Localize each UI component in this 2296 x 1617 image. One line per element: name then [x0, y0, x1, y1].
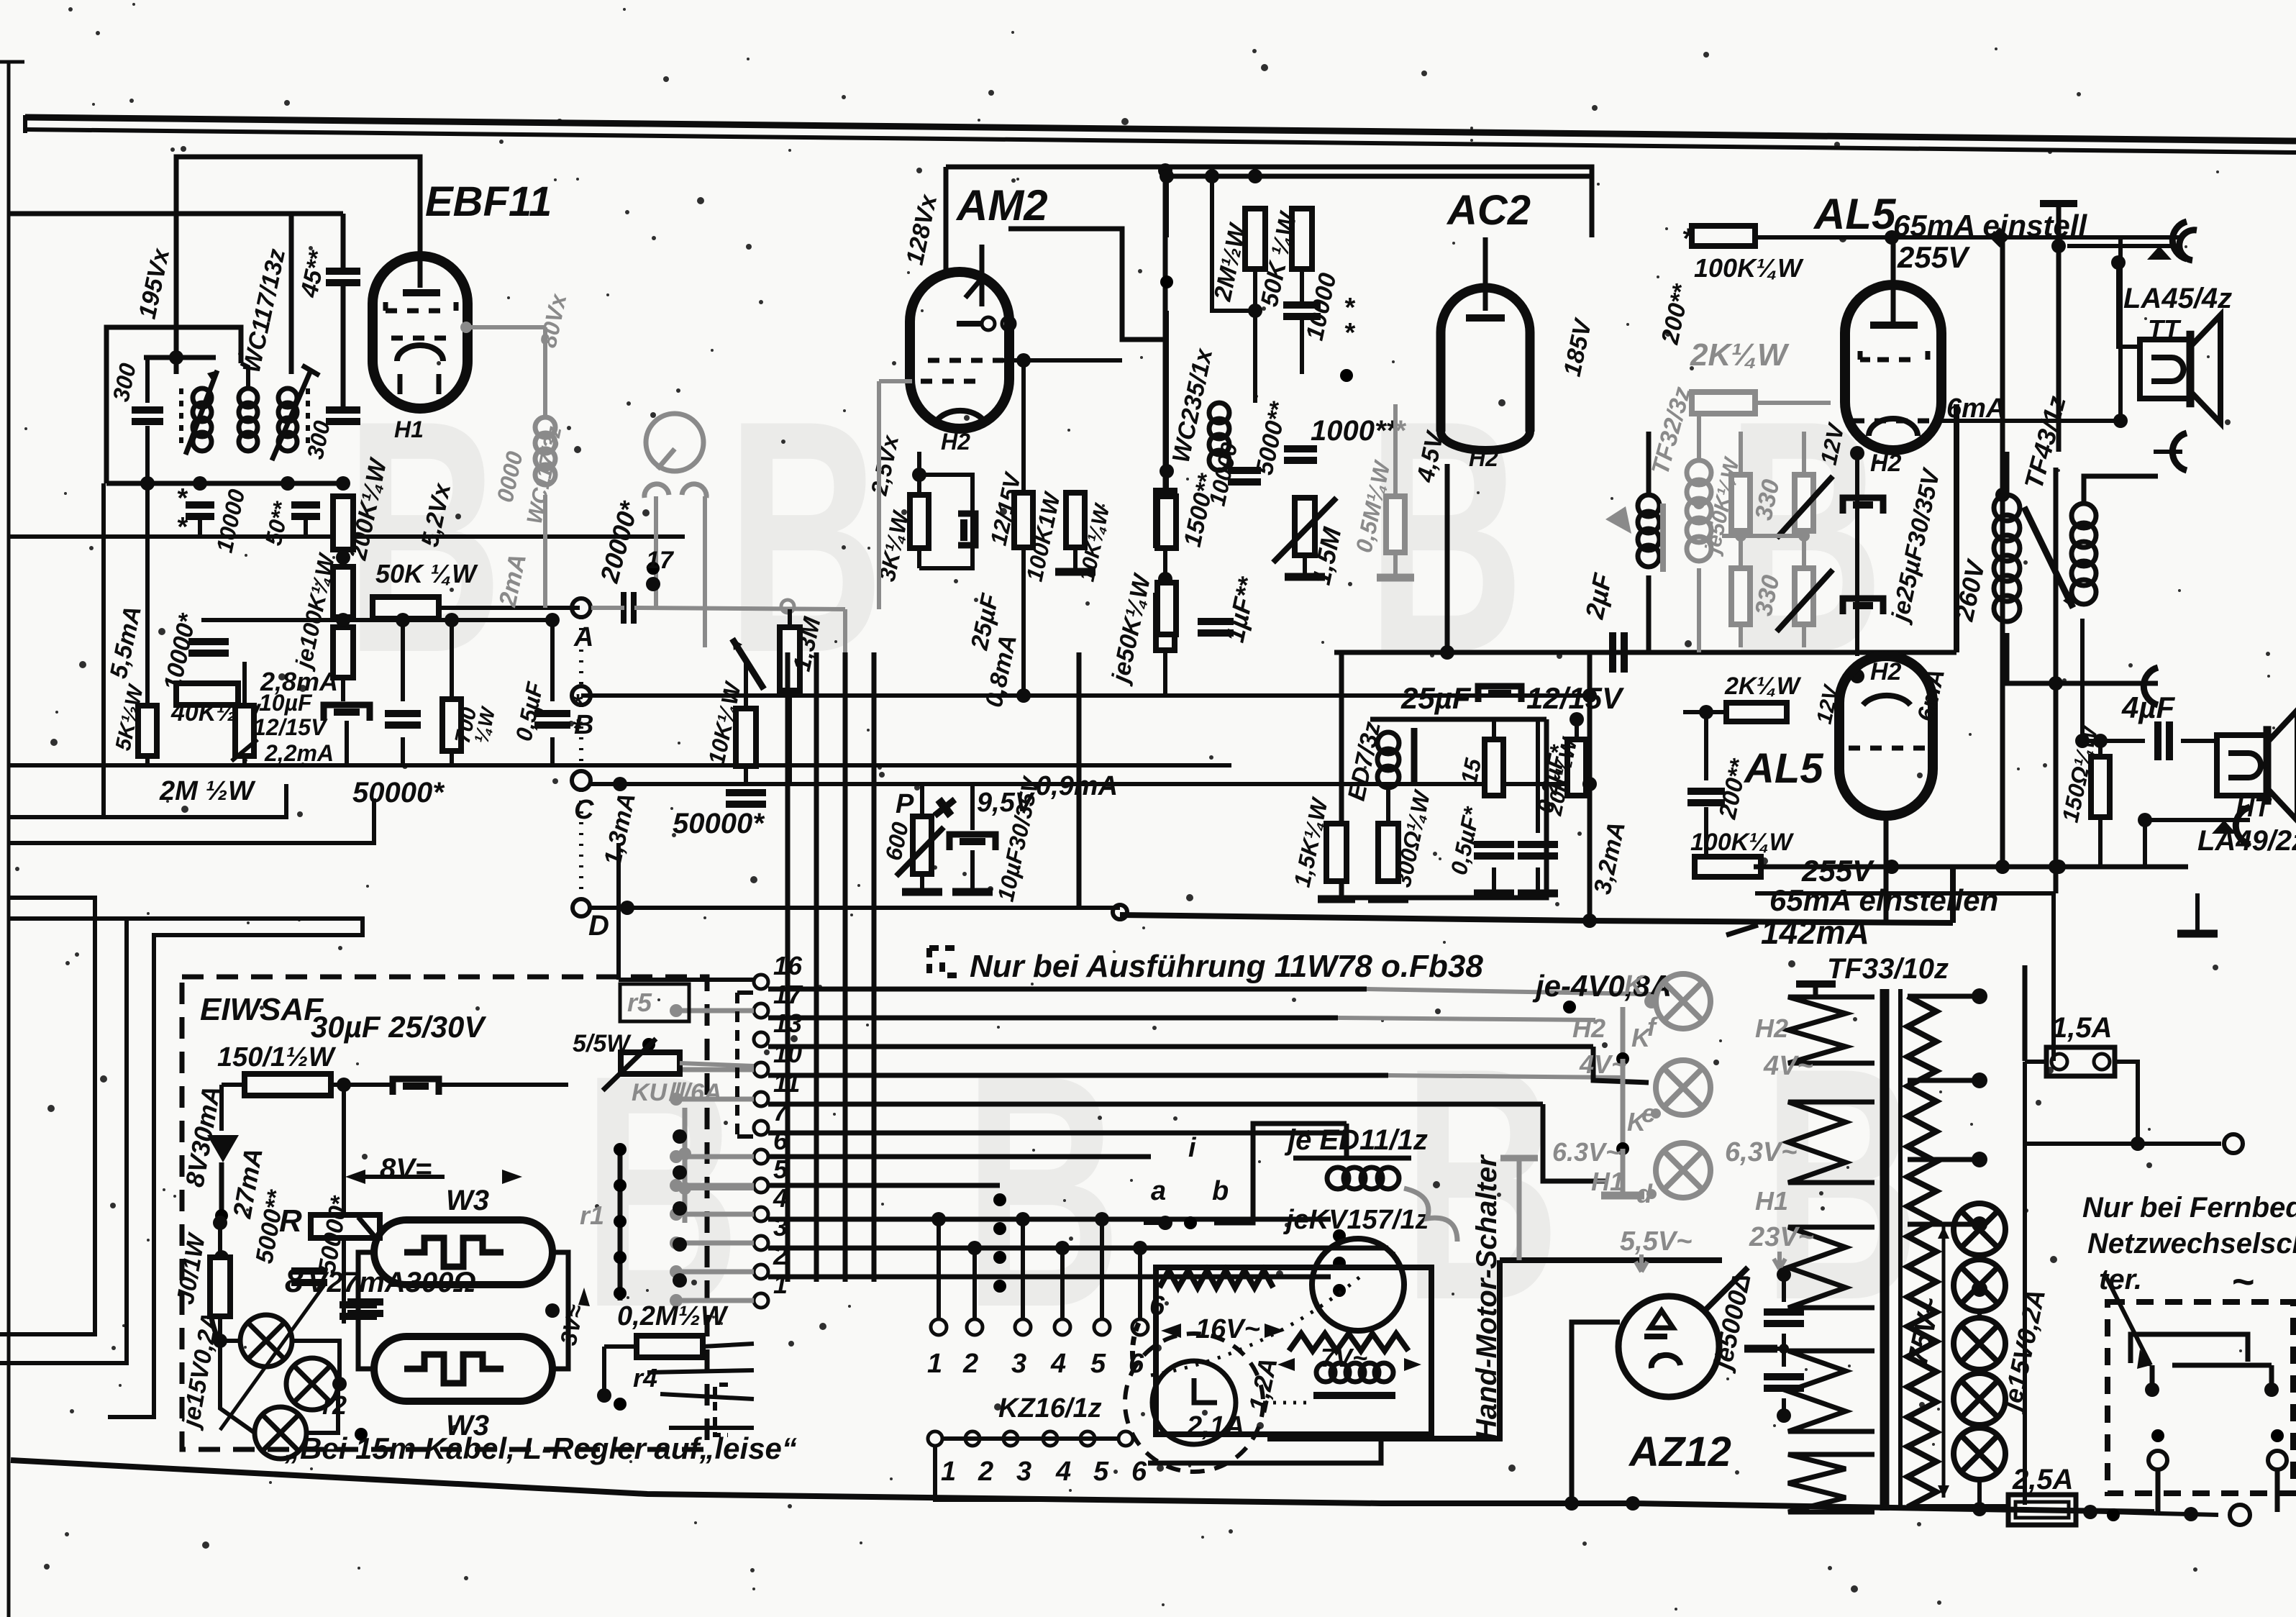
switch r2 — [361, 1407, 384, 1434]
wire bottom chassis bus — [11, 1460, 2154, 1512]
svg-text:*: * — [1344, 318, 1356, 348]
coil WC117 oscillator — [278, 388, 297, 407]
resistor 20K 1/2W — [1567, 739, 1586, 796]
svg-text:10µF: 10µF — [259, 690, 313, 716]
coil TF43 primary — [1994, 495, 2020, 521]
resistor 1,5K 1/4W — [1326, 824, 1347, 881]
ground heater — [1601, 1192, 1644, 1200]
svg-text:r4: r4 — [633, 1363, 657, 1393]
capacitor 4uF — [2154, 721, 2161, 760]
switch r5 box — [620, 984, 689, 1021]
terminal bottom right — [2230, 1505, 2250, 1525]
svg-text:100K¼W: 100K¼W — [1690, 829, 1795, 856]
coil KV157 — [1316, 1363, 1335, 1382]
svg-text:142mA: 142mA — [1761, 914, 1869, 951]
svg-text:W3: W3 — [446, 1185, 489, 1216]
wire AVC bus — [9, 534, 685, 539]
terminal mains — [2224, 1134, 2243, 1153]
svg-text:H1: H1 — [1591, 1167, 1624, 1196]
node A — [572, 598, 591, 617]
switch K2 — [1623, 1037, 1663, 1059]
svg-text:*: * — [176, 512, 188, 542]
svg-text:5,5V~: 5,5V~ — [1620, 1226, 1692, 1257]
node C — [572, 771, 591, 790]
switch Netz right — [2259, 1390, 2277, 1436]
capacitor 50000pF — [385, 710, 421, 717]
svg-text:AL5: AL5 — [1813, 190, 1897, 238]
svg-text:EBF11: EBF11 — [425, 178, 552, 225]
svg-text:25µF: 25µF — [1400, 681, 1472, 715]
potentiometer 600 — [913, 816, 931, 874]
svg-text:5: 5 — [1090, 1349, 1106, 1379]
resistor 5/5W — [621, 1052, 680, 1074]
wire node C bus — [590, 782, 1590, 786]
tube AL5 upper — [1845, 285, 1941, 450]
resistor je 100K 1/4W pair — [333, 567, 353, 617]
svg-text:A: A — [573, 622, 593, 652]
tube AC2 — [1441, 288, 1530, 432]
svg-text:H1: H1 — [394, 416, 424, 442]
svg-text:6: 6 — [1131, 1457, 1147, 1487]
resistor je 50K 1/4W pair — [1156, 491, 1175, 545]
resistor 3K 1/4W — [910, 495, 929, 548]
coil WC235/1x — [1209, 403, 1229, 423]
svg-text:13: 13 — [773, 1008, 802, 1038]
svg-text:i: i — [1188, 1133, 1197, 1163]
capacitor 30uF 25/30V — [393, 1079, 439, 1095]
svg-text:6.3V~: 6.3V~ — [1552, 1137, 1621, 1167]
svg-text:~: ~ — [2231, 1260, 2254, 1303]
winding 7V — [1289, 1334, 1408, 1351]
svg-text:Nur bei Fernbedieng: Nur bei Fernbedieng — [2082, 1192, 2296, 1224]
resistor 10K 1/4W — [736, 709, 756, 766]
lamps je 15V 0,2A — [240, 1315, 292, 1367]
wire anode supply bus — [9, 211, 343, 217]
svg-text:2: 2 — [978, 1457, 993, 1487]
wire ground bus — [9, 763, 1231, 767]
capacitor 25uF lower — [1843, 598, 1883, 614]
capacitor 10000pF — [1283, 301, 1321, 309]
winding aux — [1788, 1454, 1874, 1512]
tube W3 lower — [374, 1336, 552, 1401]
tube AL5 lower — [1839, 656, 1933, 816]
svg-text:K: K — [1631, 1023, 1652, 1052]
svg-text:H2: H2 — [941, 429, 970, 455]
capacitor 300pF left — [145, 357, 150, 403]
wire left L2 — [9, 798, 374, 843]
resistor 2K 1/4W gray — [1692, 392, 1755, 414]
wire mains feed — [2023, 965, 2028, 1061]
switch 17 — [623, 519, 653, 568]
lamp d 6,3V — [1656, 1143, 1710, 1198]
svg-text:3: 3 — [1016, 1457, 1031, 1487]
svg-text:D: D — [588, 910, 609, 942]
ground right — [2177, 930, 2218, 938]
winding 5,5V — [1788, 1227, 1874, 1308]
potentiometer 330 lower — [1795, 568, 1813, 624]
resistor 700 1/4W — [442, 699, 461, 751]
svg-text:2,5A: 2,5A — [2012, 1464, 2074, 1495]
capacitor 45pF — [326, 268, 360, 275]
svg-text:1,5A: 1,5A — [2051, 1012, 2113, 1044]
switch r4 — [620, 1394, 660, 1404]
svg-text:4V~: 4V~ — [1579, 1049, 1626, 1079]
svg-text:8V=: 8V= — [380, 1153, 432, 1185]
capacitor 25uF upper — [1843, 498, 1883, 514]
svg-text:H2: H2 — [1469, 445, 1498, 471]
svg-text:50000*: 50000* — [673, 808, 765, 839]
svg-text:5: 5 — [1093, 1457, 1109, 1487]
capacitor between W3 — [340, 1301, 377, 1308]
transformer TF33 core — [1880, 989, 1890, 1511]
svg-text:H2: H2 — [1755, 1014, 1788, 1043]
svg-text:1: 1 — [941, 1457, 956, 1487]
svg-text:2K¼W: 2K¼W — [1690, 337, 1790, 373]
capacitor 0,5uF — [1474, 841, 1514, 848]
wire 255V line — [1754, 865, 2188, 870]
svg-text:7: 7 — [773, 1097, 789, 1126]
coil ED11/1z — [1327, 1167, 1349, 1189]
svg-text:0,2M½W: 0,2M½W — [617, 1301, 729, 1331]
winding 23V — [1788, 1351, 1874, 1431]
coil IF secondary — [239, 388, 258, 407]
svg-text:17: 17 — [773, 980, 803, 1009]
capacitor 0,5uF — [534, 710, 570, 717]
wire left L3 — [0, 898, 95, 1334]
potentiometer 330 upper — [1795, 475, 1813, 531]
wire EBF11 anode loop — [176, 157, 420, 374]
svg-text:4: 4 — [1055, 1457, 1071, 1487]
svg-text:Netzwechselschal-: Netzwechselschal- — [2087, 1228, 2296, 1260]
dashed box EIWSAF — [182, 977, 707, 1449]
capacitor 200pF — [1687, 788, 1725, 795]
coil IF primary — [193, 388, 211, 407]
svg-text:K: K — [1624, 970, 1646, 1001]
svg-text:TF33/10z: TF33/10z — [1827, 953, 1949, 985]
svg-text:K: K — [1627, 1107, 1648, 1137]
svg-text:3: 3 — [773, 1212, 788, 1242]
svg-text:C: C — [574, 795, 594, 825]
wire AM2 anode loop — [946, 167, 1592, 237]
coil WC117/3z gray — [535, 417, 555, 437]
svg-text:2K¼W: 2K¼W — [1724, 673, 1802, 700]
svg-text:65mA einstellen: 65mA einstellen — [1769, 883, 1998, 917]
capacitor * padding — [186, 501, 214, 509]
svg-text:KUⅢ/6A: KUⅢ/6A — [632, 1079, 721, 1106]
svg-text:KZ16/1z: KZ16/1z — [998, 1393, 1102, 1424]
svg-text:50K ¼W: 50K ¼W — [375, 559, 478, 588]
switch mains — [2113, 1488, 2168, 1515]
svg-text:b: b — [1212, 1176, 1229, 1206]
resistor 40K 1/2W — [176, 683, 238, 705]
svg-text:a: a — [1151, 1176, 1166, 1206]
diode 8V 30mA — [207, 1135, 239, 1162]
resistor 0,5M 1/4W — [1386, 496, 1405, 552]
svg-text:je ED11/1z: je ED11/1z — [1284, 1124, 1428, 1156]
wire cable bundle — [785, 652, 791, 1282]
capacitor 25uF cathode — [958, 514, 975, 545]
svg-text:3: 3 — [1011, 1349, 1026, 1379]
capacitor 10uF electrolytic — [324, 705, 370, 721]
svg-text:30µF 25/30V: 30µF 25/30V — [311, 1010, 486, 1044]
speaker TT LA45/4z — [2140, 340, 2190, 398]
svg-text:H2: H2 — [1572, 1014, 1605, 1043]
svg-text:2,2mA: 2,2mA — [264, 740, 334, 766]
potentiometer 1,3M volume — [780, 627, 800, 691]
resistor 2M 1/2W — [1245, 209, 1265, 269]
winding H2 4V — [1788, 997, 1874, 1063]
resistor 150 ohm 1/4W — [2091, 757, 2110, 817]
svg-text:r5: r5 — [627, 988, 652, 1017]
resistor 200K 1/4W — [333, 496, 353, 550]
resistor 10K 1/4W screen — [1066, 493, 1085, 547]
antenna terminal — [2040, 200, 2077, 207]
resistor 2K 1/4W lower — [1726, 703, 1787, 721]
winding 6,3V H1 — [1788, 1102, 1874, 1183]
headphone jack — [646, 414, 703, 471]
tube EBF11 — [373, 256, 468, 409]
resistor 300 ohm 1/4W — [1378, 824, 1398, 881]
svg-text:50000*: 50000* — [352, 777, 445, 808]
resistor 100K 1/4W — [1692, 226, 1755, 246]
capacitor 300pF right — [326, 406, 360, 414]
coil TF43 secondary — [2072, 504, 2096, 528]
top double rule line 2 — [25, 129, 2296, 152]
switch a-i-b — [1185, 1172, 1190, 1223]
svg-text:AL5: AL5 — [1743, 745, 1823, 792]
svg-text:255V: 255V — [1801, 854, 1874, 888]
speaker HT LA49/2z — [2217, 735, 2267, 796]
switch K3 — [1623, 1127, 1663, 1149]
svg-text:16V~: 16V~ — [1195, 1314, 1260, 1344]
resistor 50K 1/4W — [1292, 209, 1312, 269]
wire left L1 — [9, 784, 286, 817]
svg-text:Nur bei Ausführung 11W78 o.Fb: Nur bei Ausführung 11W78 o.Fb38 — [970, 949, 1483, 984]
svg-text:23V~: 23V~ — [1749, 1222, 1814, 1252]
capacitor 5000pF — [1228, 467, 1261, 474]
resistor 50K 1/4W — [373, 597, 439, 619]
wire left L4 — [0, 919, 127, 1363]
coil TF32 primary — [1638, 495, 1659, 516]
node B — [572, 686, 591, 705]
capacitor 1000pF — [1284, 445, 1317, 452]
page border left — [7, 61, 11, 1617]
capacitor 10000pF — [188, 638, 229, 645]
svg-text:100K¼W: 100K¼W — [1694, 253, 1804, 283]
lamp e 4V — [1656, 1060, 1710, 1115]
resistor 100K 1W — [1014, 493, 1033, 547]
wire IF transformer box — [106, 327, 241, 483]
svg-text:B: B — [574, 710, 593, 740]
dashed box Netzwechselschalter — [2108, 1302, 2293, 1493]
capacitor 0,2uF — [1518, 841, 1558, 848]
fuse 1,5A — [2046, 1047, 2115, 1076]
motor ED11 — [1312, 1239, 1404, 1331]
svg-text:AC2: AC2 — [1446, 187, 1531, 234]
svg-text:2: 2 — [962, 1349, 978, 1379]
ground je5000 — [1744, 1345, 1777, 1353]
svg-text:2: 2 — [773, 1241, 788, 1270]
resistor 100K 1/4W lower — [1695, 857, 1761, 877]
capacitor je 5000pF pair — [1764, 1308, 1804, 1316]
coil TF32 secondary — [1687, 460, 1711, 485]
lamp f 4V — [1656, 974, 1710, 1029]
svg-text:4: 4 — [1050, 1349, 1066, 1379]
svg-text:jeKV157/1z: jeKV157/1z — [1283, 1205, 1429, 1235]
tube W3 upper — [374, 1220, 552, 1285]
potentiometer R 300 ohm — [311, 1215, 380, 1238]
svg-text:16: 16 — [773, 951, 803, 980]
capacitor 2uF — [1609, 632, 1616, 673]
wire 65mA einstellen line — [1755, 891, 2054, 896]
svg-text:LA45/4z: LA45/4z — [2123, 283, 2232, 314]
wire node B bus — [581, 693, 1592, 698]
wire node D line — [590, 906, 1120, 910]
capacitor 20000pF coupling — [621, 592, 627, 624]
wire 142mA bus — [1120, 915, 1953, 923]
fuse 2,5A — [2008, 1495, 2076, 1525]
svg-text:H2: H2 — [1870, 450, 1902, 477]
capacitor node C — [726, 789, 766, 796]
wire left L5 — [9, 919, 363, 1417]
ground transformer top — [1796, 980, 1836, 988]
capacitor 1uF — [1198, 618, 1234, 625]
svg-text:r2: r2 — [322, 1390, 347, 1420]
resistor 1500 pair — [1157, 496, 1176, 548]
svg-text:AM2: AM2 — [955, 181, 1048, 229]
switch Netz left — [2139, 1390, 2158, 1436]
resistor 30 1W — [210, 1257, 230, 1316]
wire WC235 top bus — [1167, 174, 1592, 179]
svg-text:1000**: 1000** — [1311, 415, 1399, 447]
winding primary 75V — [1908, 996, 1936, 1507]
switch gang r1 — [618, 1149, 623, 1301]
svg-text:150/1½W: 150/1½W — [217, 1042, 337, 1072]
resistor je 50K 1/4W gray pair — [1731, 475, 1750, 531]
node D — [573, 899, 590, 916]
resistor 15 — [1485, 739, 1503, 796]
svg-text:7V~: 7V~ — [1321, 1343, 1367, 1372]
svg-text:AZ12: AZ12 — [1628, 1429, 1731, 1475]
svg-text:2,1A: 2,1A — [1186, 1411, 1244, 1441]
coil ED7/3z — [1377, 732, 1399, 754]
svg-text:17: 17 — [646, 547, 675, 574]
svg-text:*: * — [1682, 223, 1695, 255]
top double rule line 1 — [25, 117, 2296, 141]
motor box — [1156, 1267, 1431, 1434]
svg-text:10: 10 — [773, 1039, 802, 1068]
wire TF43 primary feed — [2000, 237, 2005, 867]
potentiometer 2M 1/2W — [235, 706, 254, 756]
switch K1 — [1570, 978, 1617, 1007]
resistor 150 1,5W — [245, 1074, 331, 1096]
capacitor 50000pF box — [347, 1298, 383, 1306]
capacitor 25uF 12/15V — [1478, 686, 1521, 702]
svg-text:12/15V: 12/15V — [1526, 681, 1624, 715]
capacitor 10uF 30/35V — [949, 834, 996, 850]
lamp column je 15V 0,2A — [1954, 1203, 2005, 1255]
svg-text:6: 6 — [773, 1126, 788, 1155]
svg-text:6,3V~: 6,3V~ — [1725, 1137, 1797, 1167]
svg-text:*: * — [176, 483, 188, 514]
resistor 5K 1/2W — [138, 706, 157, 756]
capacitor 5000pF box — [291, 1267, 327, 1275]
svg-text:255V: 255V — [1897, 240, 1970, 274]
capacitor 50pF — [291, 501, 320, 509]
svg-text:H1: H1 — [1755, 1186, 1788, 1216]
motor dial KZ16/1z — [1125, 1334, 1263, 1472]
svg-text:r1: r1 — [580, 1201, 604, 1230]
tube AM2 — [910, 272, 1009, 429]
svg-text:1: 1 — [927, 1349, 942, 1379]
svg-text:4V~: 4V~ — [1763, 1051, 1813, 1081]
svg-text:EIWSAF: EIWSAF — [200, 992, 324, 1027]
winding 16V — [1160, 1270, 1273, 1288]
svg-text:12/15V: 12/15V — [253, 714, 328, 740]
svg-text:1: 1 — [773, 1270, 788, 1299]
svg-text:11: 11 — [773, 1068, 800, 1098]
potentiometer 1,5M — [1295, 498, 1315, 555]
tube AZ12 rectifier — [1618, 1296, 1719, 1397]
svg-text:2M ½W: 2M ½W — [159, 776, 256, 806]
